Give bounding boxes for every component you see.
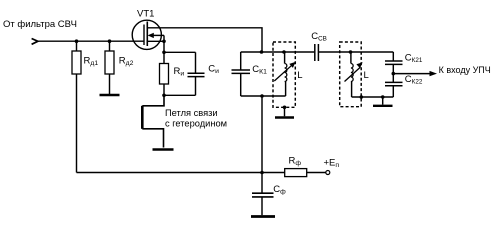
input arrow chevron: [32, 39, 38, 45]
svg-text:Петля связи: Петля связи: [165, 108, 218, 118]
wire tank2 to ground: [382, 97, 384, 105]
svg-text:VT1: VT1: [137, 9, 154, 20]
capacitor Ссв: [311, 31, 327, 61]
label loop: [165, 108, 227, 128]
wire tank2 top: [318, 51, 393, 53]
node dot RC top: [162, 51, 166, 55]
wire Rд1 bottom to rail: [76, 74, 78, 173]
node dot L2 top: [349, 50, 353, 54]
ground shield1: [275, 116, 294, 118]
node dot shield2: [360, 95, 364, 99]
node dot rail/Rф/Сф: [260, 171, 264, 175]
wire tank2 bottom: [352, 96, 394, 98]
inductor L2: [345, 52, 369, 97]
output arrow to УПЧ: [393, 65, 490, 76]
node dot tank2 ground tee: [381, 95, 385, 99]
wire Rд2 to ground: [109, 74, 111, 94]
ground tank2: [373, 105, 393, 107]
svg-text:L: L: [364, 70, 369, 81]
resistor Rд2: [105, 41, 134, 74]
resistor Rд1: [72, 41, 98, 74]
wire RC top: [164, 51, 196, 53]
wire tank1 top: [241, 51, 315, 53]
terminal +Еп: [324, 157, 340, 174]
svg-text:L: L: [297, 70, 302, 81]
resistor Rи: [160, 52, 185, 95]
node dot output: [392, 72, 396, 76]
wire bottom rail: [77, 172, 263, 174]
capacitor Ск1: [232, 52, 268, 96]
coupling loop to heterodyne: [142, 95, 164, 147]
capacitor Ск21: [385, 52, 423, 74]
wire RC bottom: [164, 94, 196, 96]
node dot RC bottom: [162, 94, 166, 98]
ground of loop: [153, 148, 174, 151]
shield box 1: [273, 42, 295, 107]
node dot at Rд2 top: [108, 39, 112, 43]
capacitor Сф: [252, 173, 286, 216]
wire drain to tank1 top: [147, 28, 262, 52]
node dot shield1 ground: [283, 106, 287, 110]
wire tank1 bottom to rail: [261, 96, 263, 173]
node dot drain feed: [260, 50, 264, 54]
svg-text:От фильтра СВЧ: От фильтра СВЧ: [3, 19, 77, 30]
node dot source junction: [162, 40, 166, 44]
wire shield1 to ground: [284, 107, 286, 116]
capacitor Си: [188, 52, 220, 95]
resistor Rф: [262, 155, 326, 176]
ground Сф: [251, 215, 275, 218]
node dot at Rд1 top: [75, 39, 79, 43]
ground under Rд2: [100, 94, 120, 96]
wire input to gate: [37, 40, 145, 42]
svg-text:К входу УПЧ: К входу УПЧ: [439, 65, 491, 75]
inductor L1: [274, 52, 302, 96]
capacitor Ск22: [385, 74, 423, 97]
node dot L1 top: [282, 50, 286, 54]
node dot tank1 bottom: [260, 94, 264, 98]
shield box 2: [340, 42, 362, 107]
wire tank1 bottom: [241, 95, 286, 97]
transistor VT1: [132, 9, 164, 53]
svg-text:с гетеродином: с гетеродином: [165, 119, 227, 129]
